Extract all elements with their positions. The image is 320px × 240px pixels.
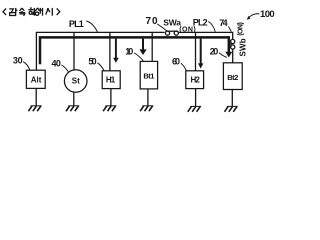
svg-text:PL2: PL2 [193, 18, 208, 28]
svg-text:70: 70 [146, 16, 158, 27]
svg-text:60: 60 [172, 57, 180, 67]
svg-text:Bt1: Bt1 [143, 71, 154, 80]
svg-text:Bt2: Bt2 [227, 73, 238, 82]
svg-text:SWb: SWb [238, 38, 247, 56]
svg-text:40: 40 [52, 58, 61, 68]
svg-text:74: 74 [219, 18, 227, 28]
svg-text:30: 30 [13, 55, 23, 65]
svg-text:Alt: Alt [31, 75, 42, 84]
svg-text:H1: H1 [106, 76, 116, 85]
svg-text:St: St [72, 77, 80, 86]
svg-text:H2: H2 [191, 76, 201, 85]
svg-text:10: 10 [125, 47, 133, 57]
svg-text:100: 100 [260, 9, 275, 20]
svg-text:20: 20 [210, 47, 219, 57]
svg-text:(ON): (ON) [238, 22, 245, 36]
svg-text:50: 50 [88, 56, 96, 66]
svg-text:PL1: PL1 [69, 19, 84, 29]
